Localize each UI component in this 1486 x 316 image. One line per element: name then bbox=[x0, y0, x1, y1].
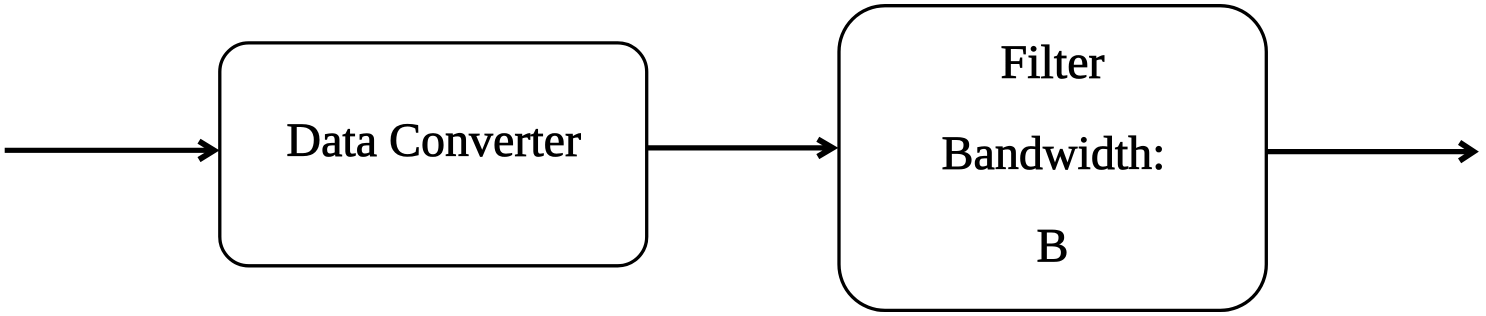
arrowhead: interconnect arrow bbox=[818, 139, 833, 156]
svg-text:B: B bbox=[1036, 220, 1068, 273]
wire: input arrow shaft bbox=[5, 148, 210, 153]
wire: output arrow shaft bbox=[1266, 149, 1470, 154]
svg-text:Data Converter: Data Converter bbox=[286, 114, 581, 167]
block U1: Data Converter bbox=[220, 43, 647, 266]
block U2: Filter Bandwidth B bbox=[839, 6, 1266, 311]
wire: interconnect arrow shaft bbox=[647, 145, 829, 150]
arrowhead: output arrow bbox=[1460, 142, 1474, 160]
arrowhead: input arrow bbox=[199, 141, 214, 159]
svg-text:Filter: Filter bbox=[1001, 36, 1105, 89]
svg-text:Bandwidth:: Bandwidth: bbox=[942, 127, 1166, 180]
